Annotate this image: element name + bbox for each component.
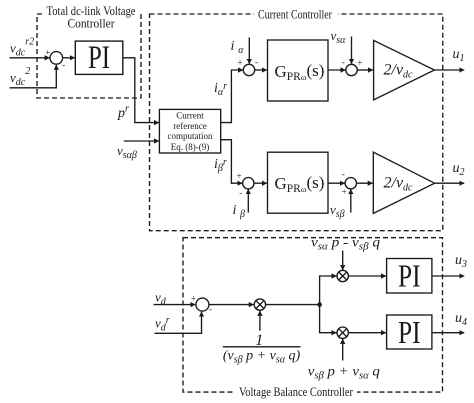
svg-text:vsαβ: vsαβ <box>117 143 137 161</box>
wire M2 to PI block U3 <box>348 275 386 277</box>
svg-text:reference: reference <box>173 121 206 131</box>
wire vdc^r2 into summer S1 <box>10 57 50 59</box>
wire vsa down into summer S4 <box>351 37 353 64</box>
svg-text:iαr: iαr <box>214 81 227 98</box>
wire label up into M3 <box>342 339 344 361</box>
svg-text:GPRω(s): GPRω(s) <box>275 61 325 83</box>
wire GPR1 to summer S4 <box>328 69 345 71</box>
node branch dot <box>317 302 322 307</box>
dashed box: Current Controller <box>150 14 443 231</box>
svg-text:u3: u3 <box>455 253 467 270</box>
svg-text:GPRω(s): GPRω(s) <box>275 173 325 195</box>
svg-text:(vsβ p + vsα q): (vsβ p + vsα q) <box>223 348 301 365</box>
PI block U3 <box>387 258 432 294</box>
label fraction 1/(vsb p + vsa q) <box>223 332 301 366</box>
svg-text:u1: u1 <box>453 47 465 64</box>
summing junction S5 <box>345 178 356 189</box>
wire u4 output <box>432 332 464 334</box>
svg-text:pr: pr <box>117 104 129 122</box>
svg-text:PI: PI <box>398 258 421 294</box>
summing junction S1 <box>50 52 63 65</box>
wire vsab input into current reference block <box>124 140 159 142</box>
wire ib up into summer S3 <box>247 189 249 212</box>
summing junction S4 <box>346 64 357 75</box>
svg-text:u2: u2 <box>453 161 465 178</box>
svg-text:Controller: Controller <box>68 16 116 31</box>
summing junction S3 <box>243 178 254 189</box>
svg-text:Current: Current <box>176 111 204 121</box>
svg-text:iβ: iβ <box>233 203 246 220</box>
wire vdc^2 into summer S1 <box>10 65 57 88</box>
wire vd into summer S6 <box>154 304 196 306</box>
wire vsb up into summer S5 <box>350 189 352 212</box>
wire fraction up into M1 <box>259 311 261 331</box>
svg-text:-: - <box>255 57 258 67</box>
svg-text:-: - <box>342 57 345 67</box>
wire S2 to GPR1 <box>255 69 267 71</box>
wire ia^r from reference block to summer S2 <box>221 70 243 123</box>
multiplier M2 <box>337 270 348 281</box>
svg-text:PI: PI <box>88 40 110 76</box>
summing junction S6 <box>196 298 209 311</box>
svg-text:vdr: vdr <box>155 315 170 334</box>
svg-text:vsα: vsα <box>331 28 347 46</box>
wire M3 to PI block U4 <box>348 332 386 334</box>
wire node down to multiplier M3 <box>320 305 337 333</box>
svg-text:+: + <box>357 58 362 68</box>
multiplier M3 <box>337 327 348 338</box>
wire S1 to PI block U1 <box>63 57 75 59</box>
wire S5 to gain triangle row2 <box>356 182 372 184</box>
svg-text:vdcr2: vdcr2 <box>10 37 34 59</box>
svg-text:u4: u4 <box>455 311 467 328</box>
svg-text:Voltage Balance Controller: Voltage Balance Controller <box>239 384 354 399</box>
wire S4 to gain triangle <box>357 69 373 71</box>
svg-text:vsβ: vsβ <box>330 202 345 220</box>
svg-text:+: + <box>236 171 241 181</box>
svg-text:Current Controller: Current Controller <box>258 7 333 22</box>
wire M1 to branch node <box>266 304 320 306</box>
wire S3 to GPR2 <box>254 182 267 184</box>
svg-text:+: + <box>45 48 50 58</box>
multiplier M1 <box>254 299 265 310</box>
wire u3 output <box>432 275 464 277</box>
dashed box: Total dc-link Voltage Controller <box>37 14 141 98</box>
wire u2 output <box>435 182 465 184</box>
summing junction S2 <box>243 64 254 75</box>
svg-text:iβr: iβr <box>214 157 227 174</box>
wire ia down into summer S2 <box>248 38 250 64</box>
wire vd^r into summer S6 <box>155 312 202 334</box>
svg-text:2/vdc: 2/vdc <box>384 175 414 194</box>
PI block U1 <box>75 41 123 74</box>
wire node up to multiplier M2 <box>320 276 337 305</box>
block GPR2 <box>268 152 329 213</box>
title: Total dc-link Voltage Controller <box>44 3 138 31</box>
title: Current Controller <box>254 7 338 22</box>
wire S6 to multiplier M1 <box>209 304 254 306</box>
gain triangle 2/vdc row2 <box>373 152 434 213</box>
wire label down into M2 <box>342 251 344 271</box>
svg-text:computation: computation <box>168 131 213 141</box>
svg-text:2/vdc: 2/vdc <box>384 62 414 81</box>
block GPR1 <box>268 40 329 101</box>
PI block U4 <box>387 314 432 350</box>
svg-text:-: - <box>209 304 212 314</box>
svg-text:-: - <box>239 188 242 198</box>
svg-text:PI: PI <box>398 314 421 350</box>
svg-text:-: - <box>342 169 345 179</box>
svg-text:iα: iα <box>231 39 245 56</box>
wire GPR2 to summer S5 <box>328 182 345 184</box>
block: current reference computation <box>159 109 220 153</box>
svg-text:vsβ p + vsα q: vsβ p + vsα q <box>308 365 380 382</box>
svg-text:+: + <box>237 57 242 67</box>
svg-text:vdc2: vdc2 <box>10 66 30 88</box>
svg-text:+: + <box>191 294 196 304</box>
svg-text:Eq. (8)-(9): Eq. (8)-(9) <box>171 142 209 152</box>
wire u1 output <box>434 69 464 71</box>
title: Voltage Balance Controller <box>235 384 357 399</box>
wire PI U1 output p^r to current reference block <box>123 58 159 123</box>
svg-text:+: + <box>342 187 347 197</box>
wire ib^r from reference block to summer S3 <box>221 140 243 184</box>
gain triangle 2/vdc row1 <box>374 40 435 100</box>
svg-text:-: - <box>62 59 65 69</box>
dashed box: Voltage Balance Controller <box>183 238 443 392</box>
